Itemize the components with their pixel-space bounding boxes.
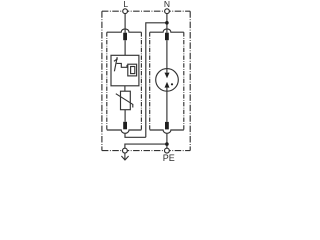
junction node on PE conductor [165,142,169,146]
device outline (dash-dot enclosure) [102,11,190,150]
spark gap gas dot [171,83,173,85]
disconnector box U1 [111,55,139,86]
module 2 bottom cap with plug socket arc [150,130,184,133]
svg-text:N: N [164,0,170,9]
ground symbol [121,153,128,160]
varistor RV1 body [121,91,131,110]
wire N terminal to plug contact [166,14,168,33]
junction node on N conductor [165,21,169,25]
terminal N [165,9,170,14]
terminal earth (bottom left) [123,148,128,153]
module 1 top cap with plug socket arc [107,29,142,32]
terminal PE (bottom right) [165,148,170,153]
spark gap upper electrode arrow [165,73,170,79]
wire box to varistor [124,86,126,91]
plug contact pin bottom module 1 [123,122,127,130]
module 1 outline (varistor module, dash-dot sides) [107,32,142,130]
wire plug contact into spark gap [166,40,168,72]
disconnector switch blade [114,57,117,71]
wire varistor to bottom plug contact [124,110,126,122]
PE bus wire [125,144,167,148]
spark gap F1 circle [156,69,179,92]
wire module 1 bottom to N link [125,133,146,137]
wire module 2 bottom to PE terminal [166,133,168,148]
indicator outer square [128,64,137,76]
plug contact pin bottom module 2 [165,122,169,129]
indicator inner square [131,67,135,74]
wire spark gap to bottom plug contact [166,88,168,122]
varistor diagonal stroke [116,94,133,108]
linkage step line to indicator [117,63,128,67]
thermal tick [114,59,118,62]
module 1 bottom cap with plug socket arc [107,130,142,133]
wire link riser to N [146,23,167,138]
spark gap lower electrode arrow [165,82,170,88]
svg-text:PE: PE [163,153,175,163]
plug contact pin top module 2 [165,33,169,41]
wire L terminal to plug contact [124,14,126,33]
module 2 top cap with plug socket arc [150,29,184,32]
terminal L [123,9,128,14]
plug contact pin top module 1 [123,33,127,41]
wire plug contact to disconnector box [124,40,126,55]
module 2 outline (spark gap module, dash-dot sides) [150,32,184,130]
svg-text:L: L [123,0,128,9]
